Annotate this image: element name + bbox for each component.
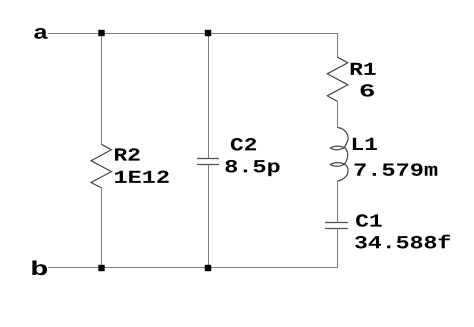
value 6 bbox=[361, 84, 374, 97]
capacitor C2 bbox=[197, 159, 219, 165]
label R2 bbox=[115, 148, 140, 160]
junction top-middle bbox=[205, 30, 211, 36]
wire L1 to C1 bbox=[337, 181, 339, 222]
label R1 bbox=[351, 63, 376, 75]
wire R2 branch bottom bbox=[101, 188, 103, 268]
value 8.5p bbox=[225, 160, 279, 176]
label L1 bbox=[353, 138, 377, 150]
inductor L1 bbox=[330, 128, 348, 182]
node a bbox=[34, 28, 47, 39]
wire top horizontal a to right corner bbox=[48, 33, 338, 35]
wire bottom horizontal b to right corner bbox=[48, 267, 338, 269]
wire C2 branch top bbox=[208, 34, 210, 159]
value 1E12 bbox=[115, 171, 169, 183]
value 34.588f bbox=[355, 235, 450, 249]
resistor R1 bbox=[327, 57, 348, 101]
junction top-left bbox=[98, 30, 104, 36]
wire top-right corner down to R1 bbox=[337, 34, 339, 58]
label C2 bbox=[231, 138, 256, 151]
junction bottom-middle bbox=[205, 265, 211, 271]
label C1 bbox=[356, 214, 382, 227]
junction bottom-left bbox=[98, 265, 104, 271]
node b bbox=[32, 261, 47, 276]
wire C2 branch bottom bbox=[208, 165, 210, 268]
wire R2 branch top bbox=[101, 34, 103, 145]
wire C1 to bottom corner bbox=[337, 229, 339, 268]
resistor R2 bbox=[91, 144, 111, 188]
capacitor C1 bbox=[325, 223, 348, 229]
wire R1 to L1 bbox=[337, 101, 339, 127]
value 7.579m bbox=[355, 163, 438, 176]
